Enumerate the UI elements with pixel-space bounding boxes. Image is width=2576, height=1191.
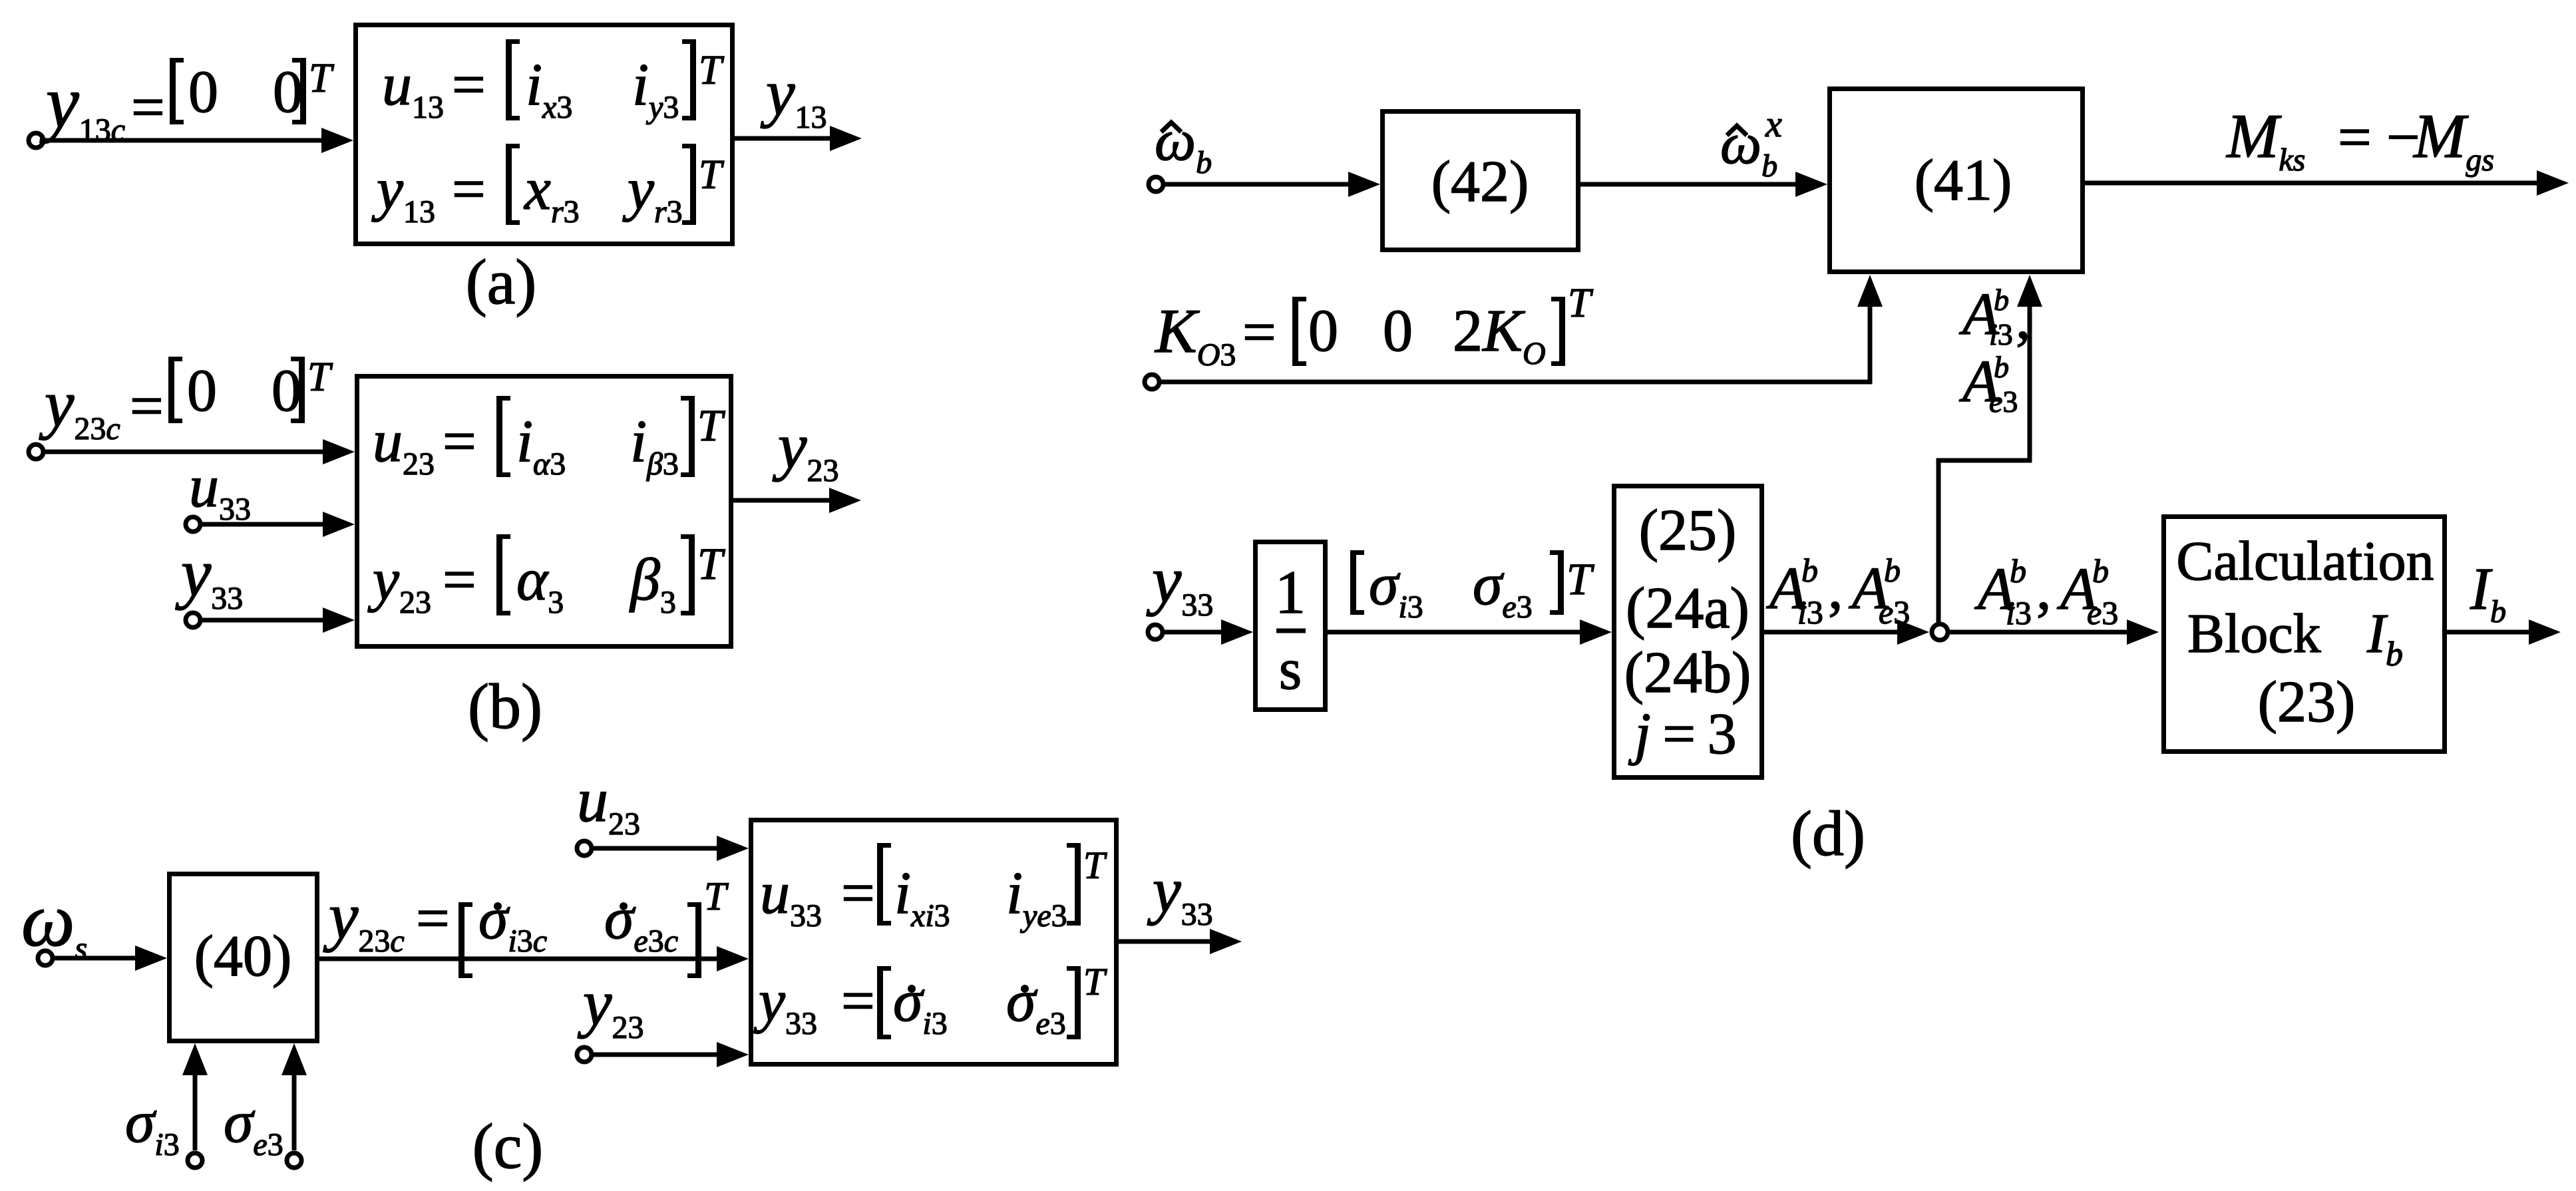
svg-text:b: b [2092, 552, 2109, 590]
svg-text:0: 0 [1308, 298, 1338, 364]
svg-text:0: 0 [188, 59, 218, 125]
svg-text:(23): (23) [2258, 670, 2356, 735]
svg-text:=: = [443, 547, 476, 613]
svg-text:(40): (40) [194, 924, 292, 989]
svg-text:=: = [841, 860, 875, 926]
svg-text:T: T [699, 152, 725, 198]
svg-text:e3: e3 [1989, 385, 2018, 419]
svg-text:(d): (d) [1791, 798, 1865, 869]
svg-text:T: T [699, 48, 725, 93]
svg-text:b: b [2010, 552, 2026, 590]
svg-text:=: = [841, 968, 875, 1034]
svg-text:(a): (a) [466, 246, 537, 317]
svg-text:(24b): (24b) [1624, 641, 1751, 705]
svg-text:0: 0 [272, 358, 301, 424]
svg-text:b: b [1884, 552, 1901, 589]
svg-text:T: T [697, 400, 725, 450]
svg-text:i3: i3 [1797, 594, 1823, 631]
svg-text:0: 0 [273, 59, 303, 125]
svg-text:=: = [131, 75, 165, 140]
svg-text:T: T [704, 874, 729, 918]
svg-text:=: = [452, 52, 486, 118]
svg-text:x: x [1765, 104, 1782, 145]
svg-text:j = 3: j = 3 [1628, 702, 1736, 766]
svg-text:i3: i3 [1989, 317, 2013, 351]
svg-text:T: T [1083, 960, 1107, 1003]
svg-text:Calculation: Calculation [2176, 530, 2434, 592]
svg-text:b: b [1801, 552, 1818, 589]
svg-text:(24a): (24a) [1626, 576, 1749, 641]
svg-text:T: T [309, 56, 335, 101]
svg-text:(c): (c) [472, 1110, 544, 1182]
svg-text:Block: Block [2187, 603, 2321, 665]
svg-text:=: = [452, 156, 486, 222]
svg-text:T: T [1568, 281, 1594, 326]
svg-text:T: T [697, 538, 725, 589]
svg-text:e3: e3 [1879, 594, 1910, 631]
svg-text:T: T [1083, 844, 1107, 887]
svg-text:=: = [443, 409, 476, 474]
svg-text:(41): (41) [1915, 148, 2012, 213]
svg-text:,: , [2016, 285, 2031, 351]
svg-text:=: = [1242, 299, 1276, 365]
svg-text:=: = [130, 373, 164, 439]
svg-text:e3: e3 [2087, 594, 2118, 631]
svg-text:(b): (b) [468, 671, 542, 742]
svg-text:,: , [1828, 556, 1843, 621]
svg-text:i3: i3 [2006, 594, 2032, 631]
svg-text:b: b [1994, 283, 2009, 317]
svg-text:,: , [2036, 556, 2052, 622]
svg-text:(25): (25) [1639, 498, 1737, 563]
svg-text:1: 1 [1275, 558, 1306, 626]
svg-text:=: = [416, 886, 450, 951]
svg-text:T: T [1566, 554, 1594, 604]
svg-text:T: T [307, 355, 333, 400]
svg-text:0: 0 [1383, 298, 1413, 364]
svg-text:b: b [1994, 350, 2009, 384]
svg-text:0: 0 [187, 358, 217, 424]
svg-text:(42): (42) [1431, 150, 1529, 214]
svg-text:=: = [2338, 104, 2372, 170]
svg-text:s: s [1279, 637, 1302, 702]
